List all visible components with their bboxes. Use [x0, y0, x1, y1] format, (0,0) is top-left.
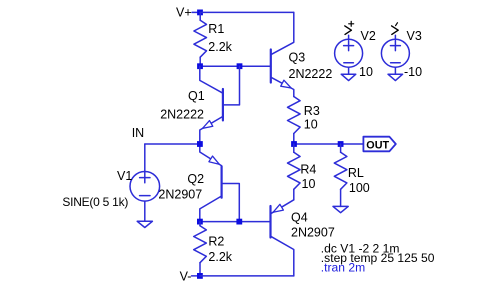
svg-text:2N2222: 2N2222 — [289, 67, 333, 81]
svg-text:2.2k: 2.2k — [208, 250, 232, 264]
svg-text:Q4: Q4 — [291, 211, 308, 225]
svg-text:V1: V1 — [117, 169, 132, 183]
svg-text:2N2907: 2N2907 — [291, 226, 335, 240]
svg-text:2.2k: 2.2k — [208, 40, 232, 54]
net label V- — [180, 269, 197, 283]
transistor Q3 — [271, 12, 294, 96]
wire bottom rail V- to Q4 collector — [200, 275, 294, 277]
voltage source V3 — [381, 35, 409, 67]
net flag + above V2 — [345, 21, 354, 34]
svg-text:10: 10 — [304, 117, 318, 131]
svg-text:-10: -10 — [404, 65, 422, 79]
ground below V1 — [137, 201, 152, 227]
svg-text:V2: V2 — [361, 29, 376, 43]
ground below RL — [333, 206, 348, 212]
ground below V2 — [341, 67, 356, 80]
junction V- node — [197, 273, 203, 279]
svg-text:V+: V+ — [176, 6, 192, 20]
resistor R3 — [288, 97, 301, 145]
wire lower mid rail (Q2 to Q4 base) — [200, 221, 271, 223]
svg-text:OUT: OUT — [366, 140, 389, 152]
junction lower rail at Q2 base riser — [236, 219, 242, 225]
junction mid rail at Q1 base riser — [237, 63, 243, 69]
junction lower rail left — [197, 219, 203, 225]
svg-text:100: 100 — [349, 181, 370, 195]
svg-text:10: 10 — [359, 65, 373, 79]
svg-text:IN: IN — [132, 126, 145, 140]
svg-text:.tran 2m: .tran 2m — [321, 261, 365, 275]
junction OUT rail left — [291, 141, 297, 147]
junction V+ node — [197, 10, 203, 16]
transistor Q1 — [200, 66, 240, 144]
wire top rail V+ to Q3 collector — [200, 11, 294, 13]
voltage source V2 — [335, 35, 363, 67]
wire mid rail (R1 bottom to Q3 base) — [200, 65, 271, 67]
svg-text:R3: R3 — [304, 104, 320, 118]
svg-text:V-: V- — [180, 269, 192, 283]
junction IN node — [197, 141, 203, 147]
transistor Q2 — [200, 144, 240, 222]
wire V1 to IN node — [145, 143, 200, 145]
ground below V3 — [388, 67, 403, 80]
svg-text:R1: R1 — [208, 22, 224, 36]
resistor R2 — [194, 222, 207, 276]
resistor RL — [334, 144, 347, 206]
svg-text:RL: RL — [348, 166, 364, 180]
resistor R4 — [288, 144, 301, 200]
svg-text:2N2222: 2N2222 — [160, 108, 204, 122]
svg-text:10: 10 — [302, 177, 316, 191]
junction at RL top — [338, 141, 344, 147]
svg-text:SINE(0 5 1k): SINE(0 5 1k) — [62, 195, 128, 209]
svg-text:2N2907: 2N2907 — [158, 188, 202, 202]
net label V+ — [176, 6, 197, 20]
svg-text:R2: R2 — [208, 235, 224, 249]
svg-text:R4: R4 — [300, 163, 316, 177]
svg-text:Q1: Q1 — [188, 89, 205, 103]
resistor R1 — [194, 12, 207, 66]
svg-text:Q2: Q2 — [187, 172, 204, 186]
transistor Q4 — [271, 200, 294, 276]
port flag OUT — [363, 137, 395, 152]
wire OUT rail — [294, 143, 364, 145]
junction mid rail left — [197, 63, 203, 69]
voltage source V1 — [130, 144, 160, 201]
svg-text:Q3: Q3 — [289, 51, 306, 65]
svg-text:V3: V3 — [407, 29, 422, 43]
net flag - above V3 — [392, 23, 399, 35]
